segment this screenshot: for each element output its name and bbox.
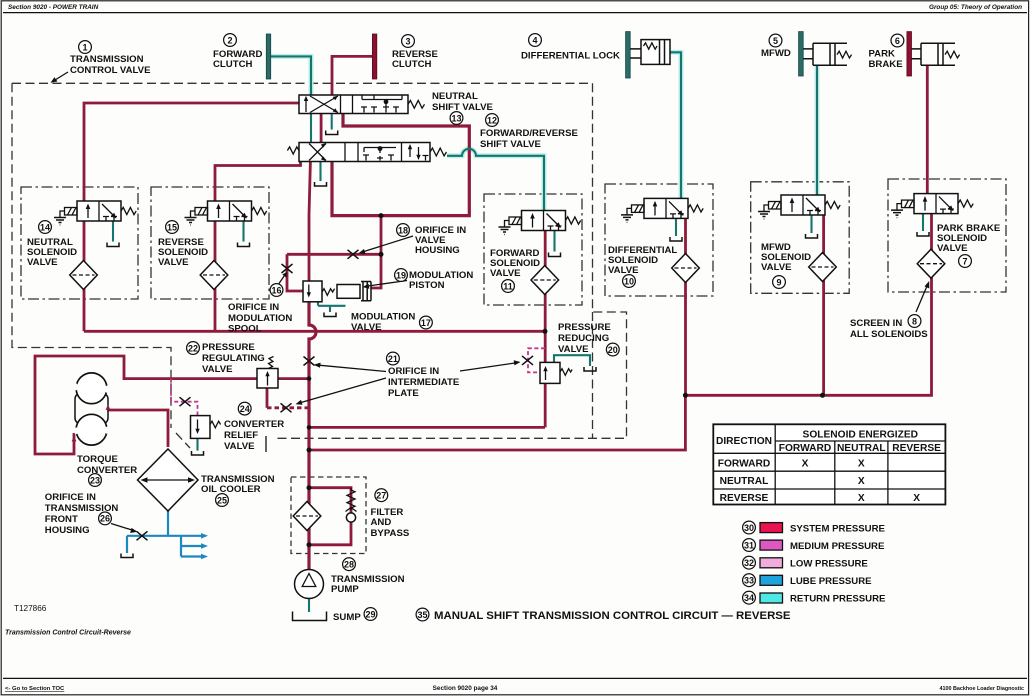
svg-text:SPOOL: SPOOL <box>228 324 262 335</box>
svg-text:12: 12 <box>487 115 497 125</box>
svg-text:5: 5 <box>773 36 778 46</box>
svg-text:X: X <box>802 458 809 469</box>
svg-text:REDUCING: REDUCING <box>558 333 609 344</box>
svg-text:26: 26 <box>100 514 110 524</box>
svg-text:VALVE: VALVE <box>224 441 255 452</box>
svg-text:SOLENOID ENERGIZED: SOLENOID ENERGIZED <box>803 430 918 441</box>
svg-text:2: 2 <box>227 35 232 45</box>
svg-text:24: 24 <box>240 404 250 414</box>
svg-text:MANUAL SHIFT TRANSMISSION CONT: MANUAL SHIFT TRANSMISSION CONTROL CIRCUI… <box>434 610 791 622</box>
svg-text:SYSTEM PRESSURE: SYSTEM PRESSURE <box>790 524 885 535</box>
svg-text:Group 05: Theory of Operation: Group 05: Theory of Operation <box>929 4 1022 11</box>
svg-text:VALVE: VALVE <box>202 364 233 375</box>
svg-text:VALVE: VALVE <box>558 344 589 355</box>
svg-text:ORIFICE IN: ORIFICE IN <box>228 302 279 313</box>
svg-text:HOUSING: HOUSING <box>45 525 90 536</box>
svg-text:VALVE: VALVE <box>608 265 639 276</box>
svg-text:MODULATION: MODULATION <box>351 312 415 323</box>
svg-text:PLATE: PLATE <box>388 388 419 399</box>
svg-text:NEUTRAL: NEUTRAL <box>837 443 886 454</box>
svg-text:33: 33 <box>744 576 754 586</box>
svg-text:28: 28 <box>344 560 354 570</box>
svg-text:RELIEF: RELIEF <box>224 430 258 441</box>
svg-text:20: 20 <box>608 345 618 355</box>
svg-text:31: 31 <box>744 540 754 550</box>
svg-text:3: 3 <box>405 36 410 46</box>
svg-text:CLUTCH: CLUTCH <box>392 59 432 70</box>
svg-text:17: 17 <box>421 318 431 328</box>
svg-text:HOUSING: HOUSING <box>415 245 460 256</box>
svg-text:27: 27 <box>376 491 386 501</box>
svg-text:4: 4 <box>532 35 537 45</box>
svg-text:VALVE: VALVE <box>351 322 382 333</box>
svg-text:6: 6 <box>895 36 900 46</box>
svg-text:SUMP: SUMP <box>333 612 361 623</box>
svg-text:X: X <box>858 476 865 487</box>
svg-text:35: 35 <box>417 610 427 620</box>
svg-text:23: 23 <box>90 475 100 485</box>
svg-text:INTERMEDIATE: INTERMEDIATE <box>388 377 460 388</box>
svg-text:REVERSE: REVERSE <box>720 493 769 504</box>
svg-text:CONTROL VALVE: CONTROL VALVE <box>70 65 151 76</box>
svg-text:OIL COOLER: OIL COOLER <box>201 484 261 495</box>
svg-text:18: 18 <box>398 225 408 235</box>
svg-text:14: 14 <box>40 222 50 232</box>
svg-text:NEUTRAL: NEUTRAL <box>720 476 769 487</box>
svg-text:13: 13 <box>451 113 461 123</box>
svg-text:25: 25 <box>217 495 227 505</box>
svg-text:LUBE PRESSURE: LUBE PRESSURE <box>790 576 872 587</box>
svg-text:11: 11 <box>503 281 513 291</box>
svg-text:30: 30 <box>744 523 754 533</box>
svg-text:X: X <box>858 493 865 504</box>
svg-text:<- Go to Section TOC: <- Go to Section TOC <box>5 686 65 692</box>
svg-text:29: 29 <box>365 609 375 619</box>
svg-text:VALVE: VALVE <box>27 257 58 268</box>
svg-text:X: X <box>858 458 865 469</box>
svg-text:CLUTCH: CLUTCH <box>213 59 253 70</box>
svg-text:RETURN PRESSURE: RETURN PRESSURE <box>790 594 886 605</box>
svg-text:AND: AND <box>371 517 392 528</box>
svg-text:7: 7 <box>962 256 967 266</box>
svg-text:9: 9 <box>776 277 781 287</box>
svg-text:TRANSMISSION: TRANSMISSION <box>70 54 144 65</box>
svg-text:FORWARD: FORWARD <box>718 458 770 469</box>
svg-text:15: 15 <box>167 222 177 232</box>
svg-text:ALL SOLENOIDS: ALL SOLENOIDS <box>850 329 928 340</box>
svg-text:X: X <box>913 493 920 504</box>
svg-text:PISTON: PISTON <box>409 280 445 291</box>
svg-text:DIFFERENTIAL LOCK: DIFFERENTIAL LOCK <box>521 51 620 62</box>
svg-text:VALVE: VALVE <box>158 257 189 268</box>
svg-text:MEDIUM PRESSURE: MEDIUM PRESSURE <box>790 541 885 552</box>
svg-text:VALVE: VALVE <box>937 243 968 254</box>
svg-text:PUMP: PUMP <box>331 584 359 595</box>
svg-text:32: 32 <box>744 558 754 568</box>
svg-text:NEUTRAL: NEUTRAL <box>432 91 478 102</box>
svg-text:8: 8 <box>912 316 917 326</box>
svg-text:VALVE: VALVE <box>761 262 792 273</box>
svg-text:LOW PRESSURE: LOW PRESSURE <box>790 559 868 570</box>
svg-text:PARK: PARK <box>869 49 896 60</box>
svg-text:PRESSURE: PRESSURE <box>558 322 611 333</box>
svg-text:21: 21 <box>388 354 398 364</box>
svg-text:FORWARD/REVERSE: FORWARD/REVERSE <box>480 128 579 139</box>
svg-text:TORQUE: TORQUE <box>77 454 118 465</box>
svg-text:REVERSE: REVERSE <box>892 443 941 454</box>
svg-text:ORIFICE IN: ORIFICE IN <box>45 492 96 503</box>
svg-text:10: 10 <box>624 276 634 286</box>
svg-text:VALVE: VALVE <box>490 268 521 279</box>
svg-text:CONVERTER: CONVERTER <box>224 419 284 430</box>
svg-text:MFWD: MFWD <box>761 48 791 59</box>
svg-text:1: 1 <box>82 42 87 52</box>
svg-text:PRESSURE: PRESSURE <box>202 342 255 353</box>
svg-text:MODULATION: MODULATION <box>228 313 292 324</box>
svg-text:Transmission Control Circuit-R: Transmission Control Circuit-Reverse <box>5 630 131 637</box>
svg-text:SHIFT VALVE: SHIFT VALVE <box>432 102 494 113</box>
svg-text:22: 22 <box>188 343 198 353</box>
svg-text:REGULATING: REGULATING <box>202 353 265 364</box>
svg-text:SHIFT VALVE: SHIFT VALVE <box>480 139 542 150</box>
svg-text:4100 Backhoe Loader Diagnostic: 4100 Backhoe Loader Diagnostic <box>940 686 1024 692</box>
svg-text:BYPASS: BYPASS <box>371 528 410 539</box>
svg-text:SCREEN IN: SCREEN IN <box>850 318 902 329</box>
svg-text:Section 9020 - POWER TRAIN: Section 9020 - POWER TRAIN <box>8 4 99 11</box>
svg-text:16: 16 <box>271 285 281 295</box>
svg-text:DIRECTION: DIRECTION <box>716 436 772 447</box>
svg-text:BRAKE: BRAKE <box>869 59 904 70</box>
svg-text:19: 19 <box>396 270 406 280</box>
svg-text:ORIFICE IN: ORIFICE IN <box>388 366 439 377</box>
svg-text:Section 9020 page 34: Section 9020 page 34 <box>433 685 498 692</box>
svg-text:FORWARD: FORWARD <box>779 443 831 454</box>
svg-text:34: 34 <box>744 593 754 603</box>
svg-text:T127866: T127866 <box>14 604 47 613</box>
svg-text:CONVERTER: CONVERTER <box>77 465 137 476</box>
svg-text:FRONT: FRONT <box>45 514 78 525</box>
